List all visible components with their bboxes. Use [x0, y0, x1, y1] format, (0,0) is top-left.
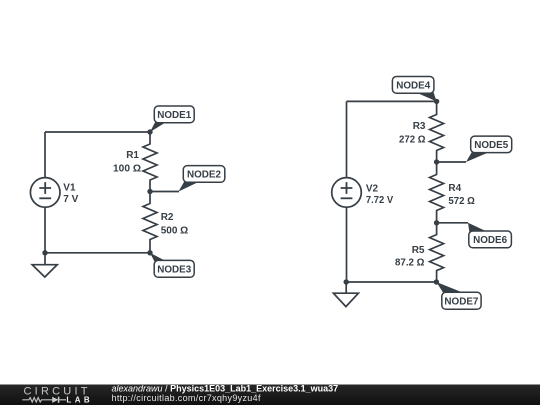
svg-text:100 Ω: 100 Ω	[113, 164, 141, 175]
node label NODE2	[179, 166, 225, 192]
wire: V1 bottom lead	[44, 207, 46, 253]
svg-text:87.2 Ω: 87.2 Ω	[395, 258, 425, 269]
resistor R1	[143, 132, 157, 192]
wire: left circuit top horizontal	[45, 131, 150, 133]
wire: right circuit top horizontal	[347, 100, 437, 102]
node label NODE6	[468, 223, 511, 248]
svg-text:NODE3: NODE3	[157, 265, 191, 276]
CircuitLab logo diode symbol	[52, 397, 66, 403]
svg-text:NODE7: NODE7	[444, 297, 478, 308]
CircuitLab logo resistor zigzag	[22, 398, 52, 402]
svg-text:R5: R5	[412, 245, 425, 256]
resistor R4	[430, 162, 444, 223]
ground (right)	[333, 282, 358, 307]
svg-text:7 V: 7 V	[63, 194, 78, 205]
voltage source V2	[332, 178, 362, 208]
svg-text:272 Ω: 272 Ω	[399, 135, 426, 146]
node junction dot NODE4	[434, 99, 439, 104]
node label NODE7	[436, 282, 481, 309]
node junction dot NODE3	[147, 250, 152, 255]
resistor R2	[143, 192, 157, 253]
wire: stub to NODE2 flag	[150, 191, 179, 193]
footer bar	[0, 385, 540, 405]
svg-text:572 Ω: 572 Ω	[448, 196, 475, 207]
svg-text:http://circuitlab.com/cr7xqhy9: http://circuitlab.com/cr7xqhy9yzu4f	[112, 393, 261, 403]
svg-text:R2: R2	[161, 212, 174, 223]
ground (left)	[32, 253, 57, 277]
svg-text:500 Ω: 500 Ω	[161, 226, 189, 237]
resistor R3	[430, 101, 444, 162]
node junction dot NODE2	[147, 189, 152, 194]
node label NODE3	[150, 253, 194, 277]
wire: V2 bottom lead	[346, 207, 348, 282]
node junction dot NODE1	[147, 129, 152, 134]
node junction dot NODE7	[434, 279, 439, 284]
node label NODE4	[392, 77, 436, 102]
svg-text:NODE6: NODE6	[473, 235, 507, 246]
wire: left circuit left vertical (V1 top lead)	[44, 132, 46, 178]
voltage source V1	[30, 178, 60, 208]
node label NODE5	[466, 136, 512, 162]
wire: stub to NODE6 flag	[437, 222, 468, 224]
svg-text:7.72 V: 7.72 V	[366, 195, 394, 206]
svg-text:R3: R3	[413, 121, 426, 132]
svg-text:V2: V2	[366, 184, 379, 195]
svg-text:V1: V1	[63, 183, 76, 194]
svg-text:NODE1: NODE1	[157, 110, 191, 121]
svg-text:NODE2: NODE2	[187, 170, 221, 181]
wire: left circuit bottom horizontal	[45, 252, 150, 254]
wire: stub to NODE5 flag	[437, 161, 466, 163]
node junction dot at V2 ground	[344, 279, 349, 284]
svg-text:R4: R4	[448, 183, 461, 194]
node junction dot NODE5	[434, 159, 439, 164]
node junction dot at V1 ground	[42, 250, 47, 255]
svg-text:NODE4: NODE4	[396, 81, 430, 92]
node label NODE1	[150, 106, 194, 132]
node junction dot NODE6	[434, 220, 439, 225]
wire: right circuit left vertical (V2 top lead)	[346, 101, 348, 177]
svg-text:LAB: LAB	[66, 396, 91, 405]
svg-text:R1: R1	[126, 150, 139, 161]
resistor R5	[430, 223, 444, 282]
wire: right circuit bottom horizontal	[347, 281, 437, 283]
svg-text:NODE5: NODE5	[474, 140, 508, 151]
svg-text:alexandrawu / Physics1E03_Lab1: alexandrawu / Physics1E03_Lab1_Exercise3…	[112, 383, 339, 393]
